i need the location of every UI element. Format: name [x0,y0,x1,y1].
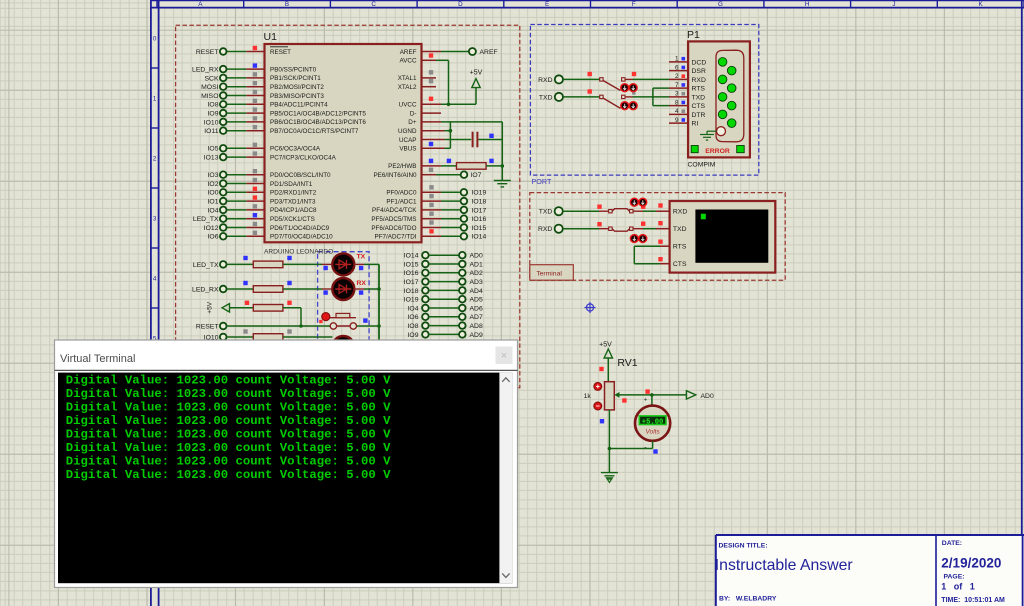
svg-text:1: 1 [153,96,157,103]
svg-text:6: 6 [675,64,679,71]
svg-text:SCK: SCK [205,75,219,82]
svg-text:XTAL2: XTAL2 [398,84,417,91]
svg-text:PB6/OC1B/OC4B/ADC13/PCINT6: PB6/OC1B/OC4B/ADC13/PCINT6 [270,119,366,126]
svg-text:IO1: IO1 [208,199,219,206]
svg-text:2: 2 [153,156,157,163]
svg-text:IO6: IO6 [408,314,419,321]
svg-text:0: 0 [153,36,157,43]
svg-text:D+: D+ [408,119,417,126]
svg-text:PB3/MISO/PCINT3: PB3/MISO/PCINT3 [270,93,324,100]
svg-text:H: H [805,1,810,8]
svg-text:COMPIM: COMPIM [688,161,716,168]
svg-text:P1: P1 [687,29,700,41]
svg-text:J: J [892,1,895,8]
svg-text:B: B [285,1,289,8]
svg-text:UGND: UGND [398,128,417,135]
svg-text:PB7/OC0A/OC1C/RTS/PCINT7: PB7/OC0A/OC1C/RTS/PCINT7 [270,128,359,135]
svg-text:RXD: RXD [692,77,706,84]
svg-text:1: 1 [675,56,679,63]
svg-text:TXD: TXD [692,94,706,101]
svg-text:BY: W.ELBADRY: BY: W.ELBADRY [719,595,777,602]
svg-text:Digital Value: 1023.00 count V: Digital Value: 1023.00 count Voltage: 5.… [66,441,391,455]
svg-text:IO4: IO4 [208,207,219,214]
svg-text:Digital Value: 1023.00 count V: Digital Value: 1023.00 count Voltage: 5.… [66,387,391,401]
svg-text:TX: TX [357,254,366,261]
svg-text:3: 3 [153,216,157,223]
svg-text:PAGE:: PAGE: [944,573,965,580]
svg-text:PC7/ICP3/CLKO/OC4A: PC7/ICP3/CLKO/OC4A [270,154,337,161]
svg-text:MISO: MISO [201,93,218,100]
svg-text:RV1: RV1 [617,357,637,369]
svg-text:PF6/ADC6/TDO: PF6/ADC6/TDO [371,225,416,232]
svg-text:Digital Value: 1023.00 count V: Digital Value: 1023.00 count Voltage: 5.… [66,455,391,469]
svg-text:PF0/ADC0: PF0/ADC0 [386,190,417,197]
svg-text:IO19: IO19 [404,297,419,304]
svg-text:×: × [501,350,507,362]
svg-text:1k: 1k [584,393,592,400]
svg-text:IO15: IO15 [472,225,487,232]
svg-text:LED_TX: LED_TX [193,216,219,223]
svg-text:+: + [644,397,648,404]
svg-text:AD2: AD2 [470,270,483,277]
svg-text:2/19/2020: 2/19/2020 [941,555,1001,570]
svg-text:IO16: IO16 [404,270,419,277]
svg-text:DCD: DCD [692,59,707,66]
svg-text:IO6: IO6 [208,234,219,241]
svg-text:E: E [545,1,549,8]
svg-text:IO3: IO3 [208,172,219,179]
svg-text:LED_RX: LED_RX [192,67,219,74]
svg-text:Digital Value: 1023.00 count V: Digital Value: 1023.00 count Voltage: 5.… [66,428,391,442]
svg-text:D: D [458,1,463,8]
svg-text:IO9: IO9 [208,111,219,118]
svg-text:AD6: AD6 [470,305,483,312]
svg-text:IO14: IO14 [404,253,419,260]
svg-text:TIME: 10:51:01 AM: TIME: 10:51:01 AM [941,597,1005,604]
svg-text:IO2: IO2 [208,181,219,188]
svg-text:PE6/INT6/AIN0: PE6/INT6/AIN0 [373,172,417,179]
svg-text:PC6/OC3A/OC4A: PC6/OC3A/OC4A [270,146,321,153]
svg-text:4: 4 [675,108,679,115]
svg-text:IO16: IO16 [472,216,487,223]
svg-text:RXD: RXD [538,77,552,84]
svg-text:RESET: RESET [270,49,291,56]
svg-text:DATE:: DATE: [942,540,962,547]
svg-text:RX: RX [357,280,367,287]
svg-text:PF1/ADC1: PF1/ADC1 [386,198,417,205]
svg-text:3: 3 [675,91,679,98]
svg-text:PD3/TXD1/INT3: PD3/TXD1/INT3 [270,198,316,205]
svg-text:IO18: IO18 [472,199,487,206]
svg-text:IO13: IO13 [204,155,219,162]
svg-text:-: - [644,443,647,452]
svg-text:+5V: +5V [599,341,612,348]
svg-text:ERROR: ERROR [705,148,730,155]
svg-text:RXD: RXD [673,209,687,216]
svg-text:AD5: AD5 [470,297,483,304]
svg-text:CTS: CTS [692,103,706,110]
svg-text:8: 8 [675,99,679,106]
svg-text:U1: U1 [264,31,278,43]
svg-text:AD4: AD4 [470,288,483,295]
svg-text:2: 2 [675,73,679,80]
svg-text:IO0: IO0 [208,190,219,197]
svg-text:1 of 1: 1 of 1 [941,581,975,591]
svg-text:PD7/T0/OC4D/ADC10: PD7/T0/OC4D/ADC10 [270,234,333,241]
svg-text:RI: RI [692,121,699,128]
svg-text:MOSI: MOSI [201,84,218,91]
svg-text:RESET: RESET [196,323,219,330]
svg-text:RESET: RESET [196,49,219,56]
svg-text:PE2/HWB: PE2/HWB [388,163,416,170]
svg-text:PD5/XCK1/CTS: PD5/XCK1/CTS [270,216,315,223]
svg-text:DSR: DSR [692,68,706,75]
svg-text:PB2/MOSI/PCINT2: PB2/MOSI/PCINT2 [270,84,324,91]
svg-text:IO19: IO19 [472,190,487,197]
svg-text:PB4/ADC11/PCINT4: PB4/ADC11/PCINT4 [270,102,328,109]
svg-text:RTS: RTS [692,86,706,93]
svg-text:IO17: IO17 [404,279,419,286]
svg-text:Digital Value: 1023.00 count V: Digital Value: 1023.00 count Voltage: 5.… [66,414,391,428]
svg-text:ARDUINO LEONARDO: ARDUINO LEONARDO [264,248,333,255]
svg-text:CTS: CTS [673,261,687,268]
svg-text:VBUS: VBUS [399,146,416,153]
svg-text:LED_RX: LED_RX [192,286,219,293]
svg-text:TXD: TXD [673,226,687,233]
svg-text:AD9: AD9 [470,332,483,339]
svg-text:+5V: +5V [470,70,483,77]
svg-text:AD7: AD7 [470,314,483,321]
svg-text:IO14: IO14 [472,234,487,241]
svg-text:G: G [718,1,723,8]
svg-text:PB5/OC1A/OC4B/ADC12/PCINT5: PB5/OC1A/OC4B/ADC12/PCINT5 [270,110,366,117]
svg-text:DTR: DTR [692,112,706,119]
svg-text:PF5/ADC5/TMS: PF5/ADC5/TMS [371,216,416,223]
svg-text:+5.00: +5.00 [642,418,664,426]
svg-text:Volts: Volts [645,429,660,436]
svg-text:IO15: IO15 [404,261,419,268]
svg-text:PD6/T1/OC4D/ADC9: PD6/T1/OC4D/ADC9 [270,225,330,232]
svg-text:PD0/OC0B/SCL/INT0: PD0/OC0B/SCL/INT0 [270,172,331,179]
svg-text:IO4: IO4 [408,305,419,312]
svg-text:Digital Value: 1023.00 count V: Digital Value: 1023.00 count Voltage: 5.… [66,374,391,388]
svg-text:TXD: TXD [539,209,553,216]
svg-text:AD8: AD8 [470,323,483,330]
svg-text:TXD: TXD [539,94,553,101]
svg-text:IO9: IO9 [408,332,419,339]
svg-text:AD3: AD3 [470,279,483,286]
svg-text:7: 7 [675,82,679,89]
svg-text:Virtual Terminal: Virtual Terminal [60,353,135,365]
svg-text:AD1: AD1 [470,261,483,268]
svg-text:Instructable Answer: Instructable Answer [715,557,853,574]
svg-text:XTAL1: XTAL1 [398,75,417,82]
svg-text:UCAP: UCAP [399,137,417,144]
svg-text:PD4/ICP1/ADC8: PD4/ICP1/ADC8 [270,207,317,214]
svg-text:IO10: IO10 [204,119,219,126]
svg-text:LED_TX: LED_TX [193,262,219,269]
svg-text:F: F [632,1,636,8]
svg-text:4: 4 [153,276,157,283]
svg-text:IO12: IO12 [204,225,219,232]
svg-text:IO18: IO18 [404,288,419,295]
svg-text:D-: D- [410,110,417,117]
svg-text:IO17: IO17 [472,207,487,214]
svg-text:AD0: AD0 [470,253,483,260]
svg-text:PB0/SS/PCINT0: PB0/SS/PCINT0 [270,66,317,73]
svg-text:AREF: AREF [400,49,417,56]
svg-text:AD0: AD0 [701,393,714,400]
svg-text:IO5: IO5 [208,146,219,153]
svg-text:AVCC: AVCC [399,58,416,65]
svg-text:UVCC: UVCC [399,102,417,109]
svg-text:Digital Value: 1023.00 count V: Digital Value: 1023.00 count Voltage: 5.… [66,401,391,415]
svg-text:RTS: RTS [673,244,687,251]
svg-text:PORT: PORT [532,177,552,186]
svg-text:C: C [371,1,376,8]
svg-text:+5V: +5V [207,301,214,314]
svg-text:PD2/RXD1/INT2: PD2/RXD1/INT2 [270,190,317,197]
svg-text:IO8: IO8 [408,323,419,330]
svg-text:PD1/SDA/INT1: PD1/SDA/INT1 [270,181,313,188]
svg-text:DESIGN TITLE:: DESIGN TITLE: [719,542,768,549]
svg-text:IO11: IO11 [204,128,218,135]
svg-text:9: 9 [675,117,679,124]
svg-text:PF4/ADC4/TCK: PF4/ADC4/TCK [372,207,417,214]
svg-text:IO7: IO7 [471,172,482,179]
svg-text:AREF: AREF [480,49,498,56]
svg-text:IO8: IO8 [208,102,219,109]
svg-text:PF7/ADC7/TDI: PF7/ADC7/TDI [375,234,417,241]
svg-text:Digital Value: 1023.00 count V: Digital Value: 1023.00 count Voltage: 5.… [66,468,391,482]
svg-text:Terminal: Terminal [536,270,562,277]
svg-text:RXD: RXD [538,226,552,233]
svg-text:PB1/SCK/PCINT1: PB1/SCK/PCINT1 [270,75,321,82]
